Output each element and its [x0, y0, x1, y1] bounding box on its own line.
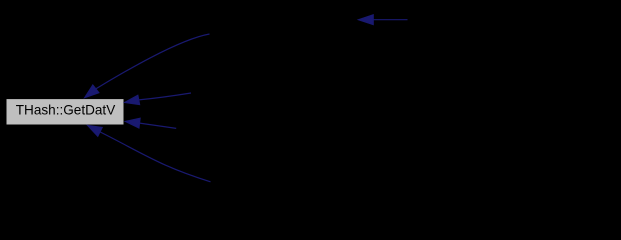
edge C: caller line from right into node right edge (lower)	[125, 118, 176, 128]
edge E: horizontal arrow between two hidden caller nodes at top right	[358, 15, 407, 25]
edge D: caller arc from lower right into node bottom	[87, 125, 210, 182]
node box: THash::GetDatV (current function, grey filled)	[6, 99, 124, 125]
svg-text:THash::GetDatV: THash::GetDatV	[16, 102, 116, 118]
edge B: caller line from right into node right edge (upper)	[125, 93, 192, 105]
node label: THash::GetDatV	[16, 102, 116, 118]
edge A: caller arc from upper right into node top	[85, 34, 210, 98]
